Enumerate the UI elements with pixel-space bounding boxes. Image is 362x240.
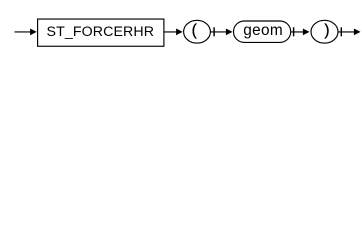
svg-text:): ) [324, 22, 329, 39]
terminal stadium geom [234, 21, 291, 42]
terminal box ST_FORCERHR [38, 19, 164, 46]
arrowhead into geom [226, 29, 233, 36]
arrowhead into paren-close [303, 29, 310, 36]
terminal ellipse ) [311, 20, 338, 43]
end arrowhead [354, 29, 361, 36]
terminal ellipse ( [184, 20, 211, 43]
tick joint [293, 27, 295, 36]
svg-text:(: ( [192, 22, 198, 39]
wire: paren-open to geom [210, 31, 226, 33]
wire: start line [15, 31, 32, 33]
svg-text:geom: geom [243, 22, 283, 39]
wire: box to paren-open [164, 31, 178, 33]
arrowhead into paren-open [176, 29, 183, 36]
wire: geom to paren-close [291, 31, 305, 33]
tick joint [340, 27, 342, 36]
start arrowhead into box [30, 29, 37, 36]
svg-text:ST_FORCERHR: ST_FORCERHR [47, 24, 155, 40]
wire: paren-close to end [338, 31, 354, 33]
tick joint [213, 27, 215, 36]
background [0, 0, 362, 58]
